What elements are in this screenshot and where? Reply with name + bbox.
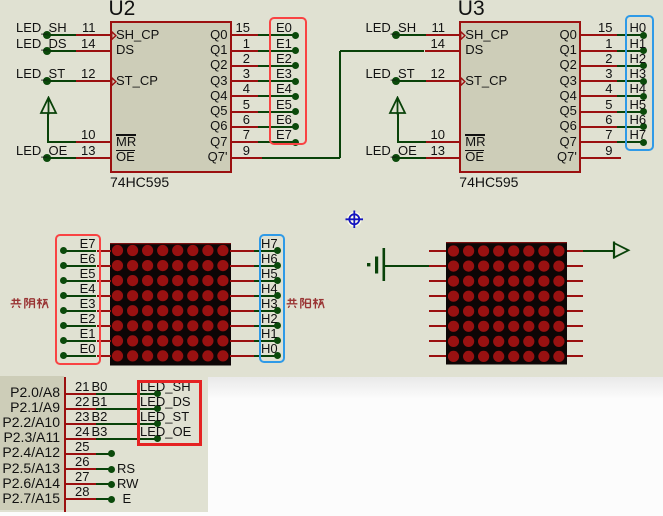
matrix right pin stub row H6 xyxy=(230,265,254,267)
net label H5 xyxy=(630,98,647,112)
junction dot net H5 xyxy=(640,108,647,115)
MCU pin name P2.0/A8 xyxy=(10,385,60,400)
matrix left pin stub xyxy=(429,325,446,327)
U2 clock mark ST_CP xyxy=(111,77,118,87)
net label H4 xyxy=(261,282,278,296)
net label E7 xyxy=(276,128,292,142)
pin number 5 xyxy=(605,98,612,112)
pin number 15 xyxy=(598,21,612,35)
U3 pin name Q0 xyxy=(559,27,576,42)
net label H0 xyxy=(630,21,647,35)
MCU pin 27 stub xyxy=(66,483,97,485)
pin number 6 xyxy=(243,113,250,127)
wire Q2 to net E2 xyxy=(258,65,296,67)
net label H3 xyxy=(630,67,647,81)
net label E4 xyxy=(80,282,96,296)
IC U2 reference designator xyxy=(109,0,136,19)
net label E4 xyxy=(276,82,292,96)
input terminal arrow (to MR) xyxy=(388,96,407,116)
U2 pin name Q1 xyxy=(210,42,227,57)
wire pin 23 to LED terminal xyxy=(96,423,157,425)
junction dot net H1 xyxy=(640,47,647,54)
MCU pin name P2.7/A15 xyxy=(2,491,60,506)
pin number 23 xyxy=(75,410,89,424)
terminal dot H0 xyxy=(274,352,281,359)
terminal LED_DS xyxy=(43,47,51,55)
matrix left pin stub row E0 xyxy=(97,355,111,357)
U2 pin name MR xyxy=(116,134,136,149)
origin marker xyxy=(345,210,365,230)
junction dot net E0 xyxy=(292,32,299,39)
junction dot net H3 xyxy=(640,78,647,85)
terminal dot H5 xyxy=(274,277,281,284)
wire matrix to terminal H3 xyxy=(254,310,278,312)
pin 10 stub xyxy=(426,141,461,143)
pin number 28 xyxy=(75,485,89,499)
net label E2 xyxy=(276,52,292,66)
wire pin 24 to LED terminal xyxy=(96,438,157,440)
wire battery to right matrix xyxy=(384,265,429,267)
IC U2 value label 74HC595 xyxy=(110,175,169,189)
U2 pin name ST_CP xyxy=(116,73,158,88)
junction dot net H2 xyxy=(640,62,647,69)
matrix right pin stub row H5 xyxy=(230,280,254,282)
IC U3 74HC595 body xyxy=(459,21,581,173)
MCU pin name P2.1/A9 xyxy=(10,400,60,415)
U3 pin name Q3 xyxy=(559,73,576,88)
pin number 1 xyxy=(605,37,612,51)
junction dot net E1 xyxy=(292,47,299,54)
pin number 5 xyxy=(243,98,250,112)
pin number 2 xyxy=(605,52,612,66)
matrix left pin stub row E5 xyxy=(97,280,111,282)
pin 13 stub xyxy=(76,157,111,159)
terminal dot xyxy=(154,435,161,442)
net label H2 xyxy=(630,52,647,66)
net label H6 xyxy=(630,113,647,127)
net label H7 xyxy=(630,128,647,142)
matrix right pin stub row H7 xyxy=(230,250,254,252)
net label E3 xyxy=(80,297,96,311)
terminal LED_OE xyxy=(43,154,51,162)
terminal label LED_OE xyxy=(16,144,67,158)
net label H4 xyxy=(630,82,647,96)
pin number 12 xyxy=(81,67,95,81)
terminal LED_ST xyxy=(43,77,51,85)
annotation box around H7..H0 (left matrix) xyxy=(259,234,285,363)
junction dot net H0 xyxy=(640,32,647,39)
U2 pin name Q7 xyxy=(210,134,227,149)
net label E5 xyxy=(80,267,96,281)
MCU pin 24 stub xyxy=(66,438,97,440)
terminal label E xyxy=(123,491,132,506)
pin number 15 xyxy=(236,21,250,35)
wire Q2 to net H2 xyxy=(617,65,644,67)
U2 clock mark SH_CP xyxy=(111,31,118,41)
wire LED_OE to pin 13 xyxy=(47,157,77,159)
matrix left pin stub xyxy=(429,280,446,282)
terminal label LED_SH xyxy=(140,380,191,394)
wire matrix to terminal H5 xyxy=(254,280,278,282)
matrix left pin stub xyxy=(429,355,446,357)
terminal LED_SH xyxy=(43,31,51,39)
pin number 14 xyxy=(81,37,95,51)
U3 clock mark ST_CP xyxy=(460,77,467,87)
chinese label common-cathode xyxy=(10,297,49,310)
pin number 13 xyxy=(81,144,95,158)
U2 pin 7 (Q7) stub xyxy=(231,141,258,143)
wire Q7 to net E7 xyxy=(258,141,296,143)
net label E1 xyxy=(276,37,292,51)
wire terminal E3 to matrix xyxy=(64,310,97,312)
IC U3 reference designator xyxy=(458,0,485,19)
wire matrix to terminal H7 xyxy=(254,250,278,252)
net label H2 xyxy=(261,312,278,326)
terminal label LED_ST xyxy=(16,67,65,81)
terminal dot H2 xyxy=(274,322,281,329)
U2 pin name Q4 xyxy=(210,88,227,103)
wire pin 21 to LED terminal xyxy=(96,393,157,395)
annotation box around H0..H7 xyxy=(625,15,655,151)
pin number 24 xyxy=(75,425,89,439)
pin number 1 xyxy=(243,37,250,51)
matrix right pin stub row H1 xyxy=(230,340,254,342)
junction dot net H4 xyxy=(640,93,647,100)
wire Q7 to net H7 xyxy=(617,141,644,143)
pin 14 stub xyxy=(426,50,461,52)
terminal dot E3 xyxy=(60,307,67,314)
MCU pin 21 stub xyxy=(66,393,97,395)
wire Q3 to net H3 xyxy=(617,80,644,82)
pin number 7 xyxy=(605,128,612,142)
matrix right pin stub xyxy=(567,310,583,312)
wire LED_OE to pin 13 xyxy=(396,157,426,159)
pin 10 stub xyxy=(76,141,111,143)
wire Q0 to net H0 xyxy=(617,34,644,36)
pin number 3 xyxy=(605,67,612,81)
wire Q3 to net E3 xyxy=(258,80,296,82)
wire LED_ST to pin 12 xyxy=(47,80,77,82)
net label E1 xyxy=(80,327,96,341)
U3 pin name Q7' xyxy=(557,149,577,164)
pin number 4 xyxy=(243,82,250,96)
terminal dot xyxy=(108,481,115,488)
terminal label LED_OE xyxy=(366,144,417,158)
terminal dot E6 xyxy=(60,262,67,269)
junction dot net H6 xyxy=(640,123,647,130)
net label H1 xyxy=(261,327,278,341)
net label H0 xyxy=(261,342,278,356)
terminal label LED_ST xyxy=(366,67,415,81)
U2 pin 4 (Q4) stub xyxy=(231,95,258,97)
U3 pin name OE xyxy=(465,149,484,164)
terminal LED_OE xyxy=(392,154,400,162)
chinese label common-anode xyxy=(286,297,325,310)
pin 12 stub xyxy=(426,80,461,82)
terminal dot xyxy=(154,390,161,397)
pin number 4 xyxy=(605,82,612,96)
U3 pin name SH_CP xyxy=(465,27,508,42)
IC U2 74HC595 body xyxy=(110,21,232,173)
matrix left pin stub row E3 xyxy=(97,310,111,312)
matrix left pin stub xyxy=(429,250,446,252)
pin number 6 xyxy=(605,113,612,127)
wire terminal E1 to matrix xyxy=(64,340,97,342)
pin number 9 xyxy=(243,144,250,158)
pin 14 stub xyxy=(76,50,111,52)
U3 clock mark SH_CP xyxy=(460,31,467,41)
U3 pin 7 (Q7) stub xyxy=(580,141,617,143)
wire arrow terminal down xyxy=(397,113,399,144)
U3 pin name Q1 xyxy=(559,42,576,57)
terminal dot xyxy=(154,420,161,427)
terminal dot H3 xyxy=(274,307,281,314)
net label B0 xyxy=(92,380,108,394)
pin number 25 xyxy=(75,440,89,454)
U2 pin 1 (Q1) stub xyxy=(231,50,258,52)
junction dot net H7 xyxy=(640,139,647,146)
input terminal arrow (to MR) xyxy=(39,96,58,116)
junction dot net E4 xyxy=(292,93,299,100)
wire terminal E4 to matrix xyxy=(64,295,97,297)
U3 pin 4 (Q4) stub xyxy=(580,95,617,97)
pin number 3 xyxy=(243,67,250,81)
net label E7 xyxy=(80,237,96,251)
pin number 11 xyxy=(82,21,96,35)
terminal dot E2 xyxy=(60,322,67,329)
IC U3 value label 74HC595 xyxy=(459,175,518,189)
U2 pin 2 (Q2) stub xyxy=(231,65,258,67)
MCU pin 23 stub xyxy=(66,423,97,425)
junction dot net E2 xyxy=(292,62,299,69)
wire Q4 to net H4 xyxy=(617,95,644,97)
output terminal arrow xyxy=(612,240,632,261)
terminal LED_ST xyxy=(392,77,400,85)
terminal label LED_OE xyxy=(140,425,191,439)
matrix right pin stub xyxy=(567,355,583,357)
pin 11 stub xyxy=(426,34,461,36)
pin number 21 xyxy=(75,380,89,394)
terminal dot xyxy=(154,405,161,412)
U3 pin 6 (Q6) stub xyxy=(580,126,617,128)
U3 pin 9 (Q7') stub xyxy=(580,157,621,159)
LED matrix display right body xyxy=(446,242,567,365)
wire LED_ST to pin 12 xyxy=(396,80,426,82)
wire Q0 to net E0 xyxy=(258,34,296,36)
U2 pin 9 (Q7') stub xyxy=(231,157,262,159)
wire U2.Q7' to U3.DS horizontal segment xyxy=(340,50,425,52)
U3 pin 14 stub xyxy=(425,50,460,52)
MCU pin 28 stub xyxy=(66,498,97,500)
terminal dot E5 xyxy=(60,277,67,284)
wire arrow terminal to pin 10 xyxy=(398,141,426,143)
net label E5 xyxy=(276,98,292,112)
matrix left pin stub xyxy=(429,295,446,297)
terminal label RW xyxy=(117,476,138,491)
wire matrix to terminal H4 xyxy=(254,295,278,297)
U2 pin name OE xyxy=(116,149,135,164)
U2 pin name Q7' xyxy=(208,149,228,164)
terminal dot E0 xyxy=(60,352,67,359)
matrix right pin stub xyxy=(567,325,583,327)
battery cell B1 xyxy=(365,246,387,284)
U2 pin 15 (Q0) stub xyxy=(231,34,258,36)
U3 pin 2 (Q2) stub xyxy=(580,65,617,67)
wire Q5 to net H5 xyxy=(617,111,644,113)
matrix right pin stub xyxy=(567,295,583,297)
net label E2 xyxy=(80,312,96,326)
wire terminal E7 to matrix xyxy=(64,250,97,252)
wire pin 25 stub xyxy=(96,453,111,455)
terminal dot xyxy=(108,450,115,457)
U2 pin name DS xyxy=(116,42,134,57)
net label H5 xyxy=(261,267,278,281)
matrix right pin stub xyxy=(567,250,583,252)
wire matrix to terminal H1 xyxy=(254,340,278,342)
matrix left pin stub row E7 xyxy=(97,250,111,252)
net label H7 xyxy=(261,237,278,251)
pin number 2 xyxy=(243,52,250,66)
matrix right pin stub xyxy=(567,265,583,267)
MCU U1 body (partial) xyxy=(0,376,64,510)
wire arrow terminal down xyxy=(47,113,49,144)
net label E0 xyxy=(276,21,292,35)
U3 pin name ST_CP xyxy=(465,73,507,88)
U2 pin name Q5 xyxy=(210,103,227,118)
U3 pin 5 (Q5) stub xyxy=(580,111,617,113)
junction dot net E5 xyxy=(292,108,299,115)
wire LED_SH to pin 11 xyxy=(47,34,77,36)
wire terminal E2 to matrix xyxy=(64,325,97,327)
U2 pin 5 (Q5) stub xyxy=(231,111,258,113)
wire matrix to terminal H6 xyxy=(254,265,278,267)
terminal label LED_SH xyxy=(16,21,67,35)
pin 11 stub xyxy=(76,34,111,36)
MCU pin 25 stub xyxy=(66,453,97,455)
MCU pin name P2.3/A11 xyxy=(3,430,60,445)
wire U2 Q7' serial out xyxy=(262,157,340,159)
junction dot net E6 xyxy=(292,123,299,130)
wire terminal E0 to matrix xyxy=(64,355,97,357)
net label E6 xyxy=(80,252,96,266)
net label E0 xyxy=(80,342,96,356)
matrix right pin stub row H2 xyxy=(230,325,254,327)
MCU pin 26 stub xyxy=(66,468,97,470)
U2 pin 6 (Q6) stub xyxy=(231,126,258,128)
U2 pin name Q0 xyxy=(210,27,227,42)
pin number 11 xyxy=(432,21,446,35)
net label H6 xyxy=(261,252,278,266)
terminal dot E4 xyxy=(60,292,67,299)
matrix right pin stub xyxy=(567,340,583,342)
U2 pin name Q3 xyxy=(210,73,227,88)
wire terminal E6 to matrix xyxy=(64,265,97,267)
wire LED_SH to pin 11 xyxy=(396,34,426,36)
terminal dot E1 xyxy=(60,337,67,344)
MCU U1 right border xyxy=(64,377,66,512)
terminal dot E7 xyxy=(60,247,67,254)
matrix left pin stub row E2 xyxy=(97,325,111,327)
terminal label RS xyxy=(117,461,135,476)
terminal label LED_ST xyxy=(140,410,189,424)
pin number 26 xyxy=(75,455,89,469)
MCU pin 22 stub xyxy=(66,408,97,410)
U2 pin name Q6 xyxy=(210,118,227,133)
annotation box around E0..E7 xyxy=(269,17,307,144)
MCU pin name P2.4/A12 xyxy=(2,445,60,460)
pin number 10 xyxy=(81,128,95,142)
U3 pin 15 (Q0) stub xyxy=(580,34,617,36)
matrix right pin stub row H0 xyxy=(230,355,254,357)
wire Q6 to net H6 xyxy=(617,126,644,128)
LED matrix display left (common cathode) body xyxy=(110,243,231,366)
wire Q1 to net E1 xyxy=(258,50,296,52)
wire right matrix to output terminal xyxy=(583,250,614,252)
matrix right pin stub xyxy=(567,280,583,282)
highlight box around LED_SH..LED_OE xyxy=(137,380,202,446)
terminal dot H7 xyxy=(274,247,281,254)
wire Q1 to net H1 xyxy=(617,50,644,52)
terminal dot H4 xyxy=(274,292,281,299)
matrix left pin stub row E6 xyxy=(97,265,111,267)
net label H1 xyxy=(630,37,647,51)
U2 pin 3 (Q3) stub xyxy=(231,80,258,82)
terminal dot H6 xyxy=(274,262,281,269)
matrix left pin stub xyxy=(429,265,446,267)
wire terminal E5 to matrix xyxy=(64,280,97,282)
terminal dot xyxy=(108,466,115,473)
U3 pin name Q6 xyxy=(559,118,576,133)
wire matrix to terminal H2 xyxy=(254,325,278,327)
terminal dot H1 xyxy=(274,337,281,344)
pin number 13 xyxy=(431,144,445,158)
pin 13 stub xyxy=(426,157,461,159)
terminal dot xyxy=(108,496,115,503)
wire Q4 to net E4 xyxy=(258,95,296,97)
junction dot net E3 xyxy=(292,78,299,85)
pin number 22 xyxy=(75,395,89,409)
U3 pin name Q2 xyxy=(559,57,576,72)
wire pin 28 stub xyxy=(96,498,111,500)
wire Q6 to net E6 xyxy=(258,126,296,128)
matrix right pin stub row H3 xyxy=(230,310,254,312)
wire LED_DS to pin 14 xyxy=(47,50,77,52)
MCU pin name P2.5/A13 xyxy=(2,461,60,476)
terminal label LED_DS xyxy=(140,395,191,409)
wire Q5 to net E5 xyxy=(258,111,296,113)
annotation box around E7..E0 (left matrix) xyxy=(55,234,101,364)
U3 pin 1 (Q1) stub xyxy=(580,50,617,52)
pin number 12 xyxy=(431,67,445,81)
wire U2.Q7' vertical segment xyxy=(339,51,341,159)
U2 pin name SH_CP xyxy=(116,27,159,42)
U3 pin 3 (Q3) stub xyxy=(580,80,617,82)
terminal LED_SH xyxy=(392,31,400,39)
net label B3 xyxy=(92,425,108,439)
U2 pin name Q2 xyxy=(210,57,227,72)
net label E3 xyxy=(276,67,292,81)
net label B2 xyxy=(92,410,108,424)
pin number 14 xyxy=(431,37,445,51)
wire arrow terminal to pin 10 xyxy=(48,141,76,143)
pin 12 stub xyxy=(76,80,111,82)
U3 pin name MR xyxy=(465,134,485,149)
matrix right pin stub row H4 xyxy=(230,295,254,297)
wire pin 27 stub xyxy=(96,483,111,485)
net label H3 xyxy=(261,297,278,311)
U3 pin name Q7 xyxy=(559,134,576,149)
pin number 9 xyxy=(605,144,612,158)
